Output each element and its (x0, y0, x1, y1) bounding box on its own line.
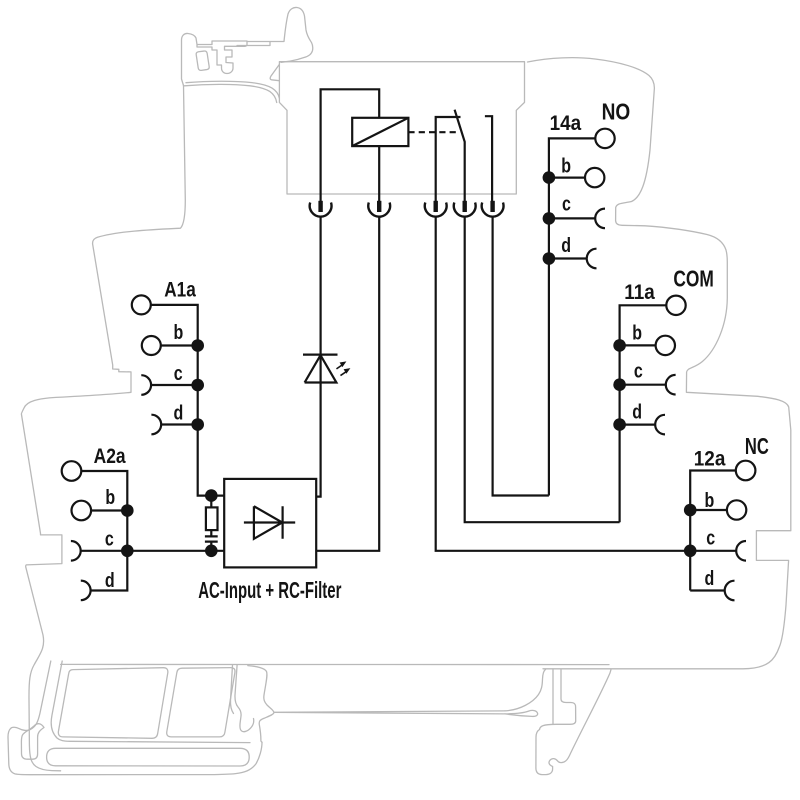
svg-text:14a: 14a (550, 112, 582, 135)
svg-text:NO: NO (602, 100, 631, 125)
svg-text:AC-Input + RC-Filter: AC-Input + RC-Filter (198, 578, 341, 604)
svg-text:b: b (561, 155, 571, 177)
svg-text:b: b (174, 321, 184, 343)
svg-text:c: c (706, 527, 715, 549)
svg-text:c: c (174, 362, 183, 384)
svg-text:b: b (705, 489, 715, 511)
svg-text:c: c (634, 360, 643, 382)
svg-text:d: d (105, 569, 115, 591)
svg-text:c: c (105, 528, 114, 550)
svg-text:c: c (562, 193, 571, 215)
svg-text:11a: 11a (624, 281, 655, 304)
svg-text:COM: COM (673, 267, 713, 292)
svg-text:NC: NC (745, 434, 769, 459)
svg-text:d: d (561, 235, 571, 257)
svg-text:b: b (632, 322, 642, 344)
svg-text:d: d (174, 402, 184, 424)
svg-text:d: d (632, 401, 642, 423)
svg-text:b: b (105, 487, 115, 509)
svg-text:A1a: A1a (164, 279, 196, 302)
svg-text:d: d (705, 567, 715, 589)
svg-text:A2a: A2a (94, 446, 126, 469)
svg-text:12a: 12a (694, 448, 726, 471)
